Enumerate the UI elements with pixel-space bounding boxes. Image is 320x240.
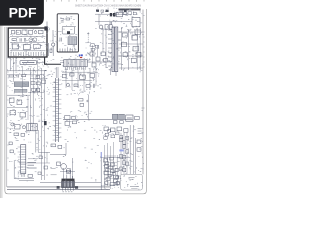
part list block — [121, 174, 143, 190]
capacitor C503 — [90, 74, 95, 78]
capacitor C305 — [96, 57, 100, 61]
snubber cluster C307 — [91, 44, 95, 47]
wire — [37, 62, 45, 64]
wire — [83, 68, 85, 92]
wire — [7, 107, 28, 109]
highlighted net (light blue) — [119, 149, 123, 151]
flyback transformer T471 primary — [112, 27, 115, 72]
U501 pin stubs left side — [53, 82, 56, 140]
net label bar HOT/COLD boundary — [119, 9, 141, 11]
wire — [95, 20, 132, 22]
terminal strip X303 — [133, 12, 136, 15]
wire — [19, 162, 50, 164]
resistor R483 — [72, 121, 76, 124]
wire — [27, 96, 29, 120]
resistor R906 — [123, 145, 126, 149]
test point TP1 cross — [86, 100, 88, 102]
junction node — [87, 32, 89, 34]
chroma cluster wires — [62, 72, 98, 80]
wire — [119, 32, 143, 68]
resistor R481 — [65, 116, 70, 120]
capacitor C484 — [113, 121, 117, 124]
return bus — [7, 189, 110, 191]
capacitor C481 — [72, 116, 75, 119]
highlighted net label underline (red) — [80, 57, 82, 58]
wire — [96, 45, 98, 57]
wire — [15, 57, 17, 71]
inner border left rail — [6, 27, 8, 187]
resistor network R102 — [33, 44, 40, 48]
bus wire — [44, 70, 46, 180]
resistor R921 — [116, 181, 119, 184]
bus wire pair vertical — [36, 130, 38, 153]
HV rectifier D471 — [122, 33, 127, 37]
bias resistor R910 — [105, 133, 109, 136]
wire — [89, 68, 91, 90]
heater net highlight (blue) — [100, 152, 102, 158]
supply bus — [7, 186, 110, 188]
resistor R903 — [117, 127, 122, 131]
bus wire — [41, 68, 43, 180]
capacitor C475 — [136, 52, 141, 57]
resistor R472 — [133, 46, 139, 51]
wire — [116, 155, 118, 186]
ceramic filter Z103 — [22, 30, 27, 34]
line filter L301 — [117, 12, 123, 17]
wire — [50, 154, 66, 156]
posistor PT301 — [99, 25, 103, 29]
wire — [101, 156, 130, 158]
capacitor C304 — [104, 58, 108, 62]
wire — [115, 72, 117, 77]
deflection yoke plug P481 — [126, 115, 133, 121]
U501 pin rungs — [56, 80, 59, 140]
capacitor C474 — [131, 58, 136, 63]
chain resistor R914 — [123, 141, 126, 144]
U301 lower pin stubs — [66, 67, 86, 70]
wire — [136, 28, 138, 70]
resistor R908 — [123, 161, 126, 165]
wire — [14, 178, 34, 180]
highlighted net label (blue) char 1 — [79, 55, 81, 57]
capacitor C901 — [137, 140, 141, 143]
resistor R602 — [22, 75, 26, 77]
jungle IC U501 pin rail left — [55, 78, 57, 142]
wire — [57, 67, 59, 78]
wire — [55, 67, 57, 78]
resistor R809 — [39, 156, 42, 159]
degauss connector plug P801 — [61, 164, 67, 170]
remote sensor U801 — [9, 142, 12, 145]
T801 winding gaps — [65, 181, 71, 187]
inner border right rail — [142, 10, 144, 175]
capacitor C606 — [32, 88, 36, 91]
value label note — [27, 167, 36, 169]
wire — [110, 68, 112, 75]
horizontal deflection rail — [63, 118, 132, 120]
transistor Q502 — [66, 83, 69, 86]
mains connector P301 — [132, 17, 140, 26]
IC IF amp U102 — [12, 44, 18, 49]
T801 body — [62, 181, 75, 188]
wire — [69, 168, 71, 175]
transistor Q602 — [17, 100, 22, 105]
drawing sheet border frame — [5, 9, 146, 194]
IC SAW U103 — [24, 44, 31, 49]
resistor R905 — [120, 138, 123, 142]
wire — [139, 28, 141, 70]
terminal strip X302 — [128, 12, 131, 15]
jungle IC U501 pin rail right — [57, 78, 59, 142]
part list text line 1 — [129, 177, 135, 179]
resistor R101 — [12, 39, 16, 41]
wire — [10, 36, 46, 38]
capacitor C201 — [60, 38, 61, 42]
chain resistor R916 — [126, 150, 129, 154]
snubber cluster C308 — [91, 48, 94, 51]
capacitor C809 — [44, 166, 48, 169]
capacitor C902 — [137, 148, 141, 151]
relay RY201 — [62, 26, 74, 34]
wire — [95, 68, 97, 86]
rectifier D303 — [90, 52, 94, 56]
degauss thermistor TH302 — [113, 13, 116, 16]
resistor R904 — [124, 129, 128, 133]
capacitor C602 — [36, 88, 39, 91]
svg-text:SHEET DIAGRAM 21HT5504 CN-9 CH: SHEET DIAGRAM 21HT5504 CN-9 CHASSIS MAIN… — [75, 3, 141, 7]
resistor R909 — [120, 167, 123, 171]
wire — [132, 125, 134, 178]
trap coil L601 — [42, 80, 46, 83]
resistor R505 — [79, 99, 83, 101]
T201 core hatch — [70, 37, 75, 45]
wire — [62, 168, 64, 175]
CRT socket wires — [103, 165, 118, 185]
resistor R603 — [36, 82, 40, 85]
resistor R801 — [51, 144, 56, 147]
yoke coupling C482 (grey) — [112, 114, 117, 119]
CRT socket dense parts — [105, 162, 117, 184]
capacitor C605 — [21, 133, 25, 136]
CRT socket wires — [103, 156, 117, 175]
flyback transformer T471 secondary — [115, 27, 118, 72]
snubber cluster R308 — [95, 45, 98, 48]
heavy supply rail — [44, 57, 46, 65]
value label 16V — [27, 164, 34, 166]
LED D803 — [10, 150, 13, 153]
IF filter Z102 — [16, 30, 20, 34]
transistor Q601 — [9, 98, 14, 103]
P601 bottom pin ticks — [21, 174, 24, 177]
resistor R907 — [120, 154, 123, 158]
wire — [10, 50, 46, 52]
resistor R605 — [20, 112, 26, 117]
P601 pin stubs — [18, 147, 21, 172]
focus pack U471 — [132, 35, 137, 40]
resistor R482 — [135, 116, 140, 119]
T801 pin number labels — [62, 191, 72, 193]
video amp chain wires — [121, 132, 127, 179]
resistor R606 — [14, 133, 19, 136]
coil L101 — [34, 31, 37, 34]
net tag box N4 — [120, 10, 123, 12]
net tag box N2 — [101, 10, 104, 12]
resistor R802 — [66, 170, 70, 173]
wire — [98, 14, 100, 25]
wire — [105, 28, 107, 68]
wire — [14, 58, 38, 95]
capacitor C505 — [80, 103, 84, 106]
driver transformer T801 top bar — [62, 179, 75, 181]
wire — [65, 68, 67, 88]
bus wire — [30, 68, 32, 131]
degauss plug outer ring P802 — [66, 168, 70, 172]
CRT drive wires vertical — [105, 142, 114, 189]
wire — [135, 138, 137, 175]
wire — [77, 68, 79, 88]
chain resistor R913 — [120, 135, 123, 138]
value label 100uF — [27, 161, 36, 163]
IF filter Z101 — [12, 31, 15, 34]
audio IC U602 (grey) — [14, 89, 27, 92]
relay contact mark — [67, 31, 70, 34]
wire — [52, 30, 54, 43]
wire — [65, 143, 67, 155]
snubber D801 — [57, 186, 60, 189]
resistor R502 — [70, 73, 74, 76]
heavy supply rail elbow — [44, 63, 61, 65]
page background — [0, 0, 149, 198]
capacitor C101 — [20, 38, 21, 41]
wire — [38, 151, 50, 153]
svg-text:PDF: PDF — [9, 5, 37, 21]
capacitor C306 — [92, 63, 96, 67]
wire — [46, 22, 48, 29]
capacitor C301 — [105, 25, 108, 30]
part list text line 4 — [131, 187, 137, 189]
main IC U301 body — [64, 60, 87, 67]
module label text mark — [22, 62, 35, 64]
wire — [7, 75, 47, 93]
capacitor C502 — [62, 74, 66, 78]
tuner/IF module shield box U101 — [8, 28, 47, 57]
dashed signal wire — [87, 34, 89, 44]
chain resistor R918 — [126, 162, 129, 166]
U501 pin stubs right side — [58, 80, 61, 138]
component value microlabels layer 2 — [9, 8, 144, 186]
box pins row — [60, 49, 75, 53]
coupling C906 — [104, 137, 107, 140]
resistor R201 — [50, 49, 52, 53]
U301 pin ticks — [65, 60, 86, 67]
transformer T102 — [33, 38, 37, 42]
T801 bottom pins — [63, 188, 73, 191]
wire — [91, 45, 93, 63]
chain resistor R917 — [123, 155, 126, 159]
wire stubs left rail — [7, 44, 9, 170]
bridge rectifier D201 — [61, 19, 65, 23]
front AV connector P601 body — [21, 145, 26, 174]
wire — [71, 68, 73, 90]
text row under connector — [19, 180, 34, 182]
page left edge shading — [0, 0, 3, 198]
wire — [129, 125, 131, 180]
wire — [51, 168, 57, 174]
crystal X501 — [15, 125, 20, 129]
P601 pin rungs — [21, 147, 26, 172]
T801 top pins — [63, 175, 72, 179]
wire — [28, 152, 47, 163]
spark gap SG901 — [138, 129, 142, 134]
T471 pin stubs right — [118, 32, 122, 64]
wire — [60, 171, 75, 173]
coupling C907 — [107, 130, 110, 133]
bias resistor R912 — [115, 132, 119, 135]
wire — [10, 57, 12, 71]
yoke coupling C483 (grey) — [119, 114, 125, 119]
transistor Q201 — [52, 43, 55, 46]
highlighted net label (blue) char 2 — [81, 54, 83, 56]
resistor R902 — [110, 128, 115, 132]
T471 winding hatch — [113, 28, 116, 71]
wire — [52, 46, 54, 56]
wire — [7, 70, 47, 72]
electrolytic C603 — [11, 123, 14, 126]
capacitor C473 — [123, 53, 128, 57]
capacitor C601 — [17, 74, 18, 77]
coil L102 — [38, 30, 43, 34]
diode D809 — [38, 172, 41, 175]
capacitor C801 — [58, 145, 62, 148]
resistor R604 — [10, 110, 16, 114]
part list text line 3 — [130, 186, 139, 188]
resistor R607 — [28, 174, 32, 177]
capacitor C302 — [109, 25, 112, 29]
wire — [95, 13, 128, 15]
degauss thermistor TH301 — [110, 13, 112, 16]
power shield box U201 — [57, 14, 78, 52]
chain resistor R915 — [126, 136, 129, 139]
capacitor C472 — [110, 22, 111, 25]
wire — [7, 94, 30, 96]
ground bus — [40, 182, 102, 184]
wire — [48, 43, 50, 56]
module label box — [20, 60, 37, 64]
delay line DL501 — [80, 75, 86, 79]
switching transformer T201 — [68, 37, 77, 45]
SIF filter Z601 — [31, 81, 35, 84]
capacitor C485 — [120, 121, 123, 124]
resistor R471 — [122, 42, 127, 46]
resistor R503 — [74, 84, 78, 87]
PDF badge — [0, 0, 44, 26]
component value microlabels layer 1 — [7, 8, 144, 190]
wire — [128, 30, 130, 70]
fuse F201 — [66, 18, 70, 20]
T471 pin stubs left — [108, 30, 112, 66]
bias resistor R911 — [111, 135, 115, 138]
inner border pin ticks — [141, 32, 144, 111]
transformer T101 — [29, 38, 33, 42]
resistor R920 — [116, 176, 119, 179]
net tag box N5 — [124, 10, 127, 12]
chain resistor R919 — [123, 168, 126, 172]
wire — [10, 42, 46, 44]
module pins row — [11, 52, 44, 56]
audio IC U601 (grey) — [14, 82, 29, 87]
electrolytic C604 — [22, 126, 25, 129]
transistor Q801 — [57, 162, 61, 166]
ceramic resonator Z501 — [27, 124, 37, 131]
transistor Q481 — [65, 121, 70, 125]
bus wire — [32, 68, 34, 124]
capacitor C102 — [25, 38, 26, 41]
wire — [120, 28, 122, 70]
Z501 hatch — [29, 124, 36, 131]
diode D601 — [36, 75, 40, 78]
CRT board resistor R901 — [104, 127, 108, 131]
regulator diode D302 — [101, 52, 105, 56]
net tag box N3 — [106, 10, 109, 12]
video out transistor Q903 — [115, 168, 118, 171]
wire — [60, 62, 64, 64]
wire — [88, 95, 90, 119]
focus divider R473 — [135, 30, 140, 34]
capacitor C504 — [94, 84, 95, 87]
top fold ruler ticks — [47, 0, 145, 2]
resistor R504 — [86, 85, 90, 88]
wire — [100, 152, 102, 190]
net tag box N1 — [96, 10, 99, 12]
snubber D802 — [75, 186, 78, 189]
dark choke L502 — [44, 121, 47, 125]
wire — [102, 28, 104, 52]
part list text line 2 — [130, 179, 134, 181]
P481 text mark — [127, 117, 132, 119]
resistor R601 — [9, 75, 13, 77]
CRT socket cluster — [104, 157, 120, 186]
wire — [71, 158, 73, 179]
wire — [13, 160, 15, 179]
ceramic filter Z104 — [29, 30, 33, 34]
wire — [87, 61, 106, 63]
terminal strip X301 — [123, 12, 126, 15]
mains input connector P201 — [44, 26, 47, 30]
